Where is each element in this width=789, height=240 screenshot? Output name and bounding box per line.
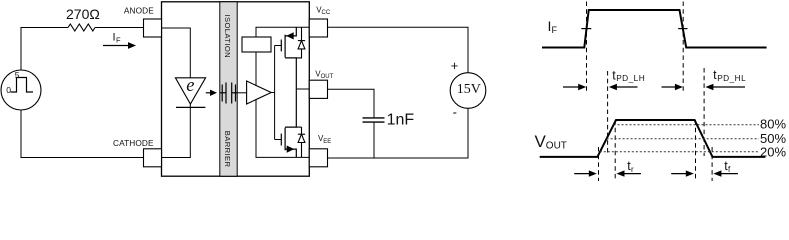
svg-text:CC: CC <box>322 10 331 16</box>
isolation barrier band <box>220 2 237 176</box>
svg-text:F: F <box>116 35 121 44</box>
tf arrows <box>671 159 738 177</box>
supply source 15V <box>450 58 486 119</box>
svg-text:V: V <box>535 132 547 151</box>
tr arrows <box>574 159 641 177</box>
svg-text:20%: 20% <box>760 145 786 160</box>
svg-text:OUT: OUT <box>546 141 567 152</box>
tick on IF rise <box>581 28 591 30</box>
buffer amplifier <box>247 81 272 104</box>
svg-text:1nF: 1nF <box>387 112 415 129</box>
dashed line B: VOUT rise 50% <box>607 71 609 153</box>
svg-text:F: F <box>552 25 558 35</box>
body diode D1 <box>296 27 305 58</box>
pin box VOUT <box>309 80 327 98</box>
pin box ANODE <box>144 19 162 37</box>
wire: LED cathode to cathode pin <box>162 104 191 158</box>
wire: block top to VCC rail <box>256 27 309 37</box>
dotted 80% line <box>614 124 760 126</box>
wire: vout node to pin <box>296 88 309 90</box>
wire: pulse source top to resistor <box>21 28 68 71</box>
pin box VEE <box>309 149 327 167</box>
dashed line D: VOUT fall 50% <box>703 68 705 156</box>
wire: pulse source bottom to CATHODE pin <box>21 110 144 158</box>
pulse source V1 <box>1 70 41 110</box>
svg-text:OUT: OUT <box>321 74 334 80</box>
resistor R1 270 ohm <box>68 24 95 31</box>
wire: resistor to ANODE pin <box>95 27 144 29</box>
svg-text:ANODE: ANODE <box>124 5 154 15</box>
transistor Q1 PMOS <box>281 27 296 89</box>
pin box CATHODE <box>144 149 162 167</box>
dotted 50% line <box>607 138 759 140</box>
svg-text:15V: 15V <box>457 82 481 97</box>
wire: VOUT pin to capacitor <box>328 89 375 117</box>
wire: anode pin to LED <box>162 28 191 78</box>
svg-text:0: 0 <box>6 85 11 95</box>
svg-text:5: 5 <box>15 70 20 80</box>
body diode D2 <box>296 127 305 157</box>
wire: block bottom rail (behind buffer) <box>256 52 309 157</box>
dashed line tr end 80% <box>614 120 616 181</box>
svg-text:BARRIER: BARRIER <box>223 131 232 168</box>
svg-text:80%: 80% <box>760 117 786 132</box>
dashed line tf end 20% <box>711 147 713 181</box>
wire: barrier to buffer <box>237 92 246 94</box>
svg-text:-: - <box>453 104 457 119</box>
wire: VEE pin to supply bottom <box>328 108 469 158</box>
svg-text:r: r <box>631 165 634 174</box>
control block <box>242 37 271 52</box>
tPD_LH arrows <box>563 68 645 90</box>
svg-text:EE: EE <box>323 139 331 145</box>
dashed line A: IF rise <box>586 2 588 92</box>
wire: VCC pin to supply <box>328 27 469 72</box>
tPD_HL arrows <box>662 68 747 90</box>
pin box VCC <box>309 19 327 37</box>
svg-text:PD_HL: PD_HL <box>717 73 746 83</box>
svg-text:270Ω: 270Ω <box>66 6 100 22</box>
IF waveform <box>542 10 767 48</box>
IC body U1 <box>162 2 310 176</box>
svg-text:ISOLATION: ISOLATION <box>223 15 232 59</box>
light arrow <box>206 92 212 94</box>
dashed line tr start 20% <box>598 147 600 181</box>
dotted 20% line <box>600 151 759 153</box>
LED emitter e <box>175 76 205 107</box>
VOUT waveform <box>540 120 766 157</box>
svg-text:PD_LH: PD_LH <box>616 73 645 83</box>
wire: gate bus <box>271 92 274 94</box>
dashed line tf start 80% <box>695 120 697 181</box>
svg-text:+: + <box>451 58 459 73</box>
current IF arrow <box>103 31 136 49</box>
capacitor C1 1nF <box>363 118 385 122</box>
svg-text:CATHODE: CATHODE <box>113 138 154 148</box>
svg-text:e: e <box>186 76 194 96</box>
wire: capacitor bottom <box>373 123 375 158</box>
transistor Q2 NMOS <box>281 89 296 157</box>
barrier capacitors <box>220 83 237 104</box>
tick on IF fall <box>678 28 687 30</box>
dashed line C: IF fall <box>682 2 684 92</box>
